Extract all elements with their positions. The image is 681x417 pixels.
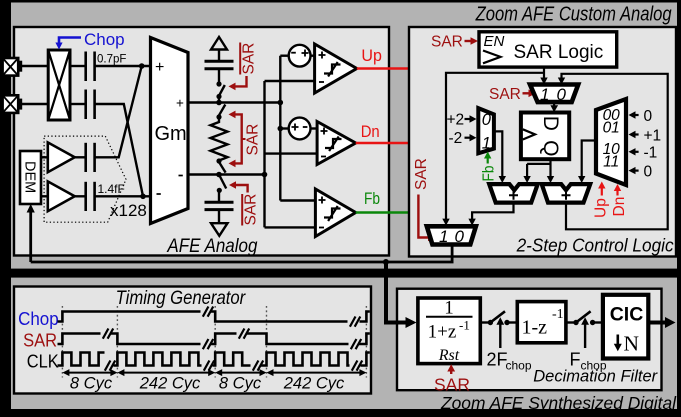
svg-text:Fb: Fb: [364, 189, 380, 208]
svg-text:SAR: SAR: [23, 330, 57, 351]
section divider bus bar: [0, 269, 681, 278]
svg-text:Chop: Chop: [18, 308, 59, 329]
label +2 with arrow: [447, 112, 477, 129]
svg-text:x128: x128: [110, 201, 147, 220]
svg-text:chop: chop: [506, 359, 532, 373]
CLK waveform break marks: [105, 361, 362, 371]
svg-text:242 Cyc: 242 Cyc: [139, 375, 201, 393]
arrow into DEM from feedback wire: [27, 204, 35, 262]
label SAR-bar (top) with arrow: [229, 43, 258, 91]
summing node SC2: [280, 118, 310, 140]
switch S4 (below -rail, SARb): [217, 177, 227, 202]
svg-text:8 Cyc: 8 Cyc: [219, 375, 262, 393]
wire C3 diagonal up to Gm +in node: [95, 66, 142, 157]
svg-text:11: 11: [603, 154, 619, 171]
clock arrow 2Fchop: [487, 317, 532, 372]
svg-text:Fb: Fb: [481, 166, 498, 182]
mux M2 (0 1 vertical): [478, 108, 494, 153]
dotted gridline t3: [214, 306, 216, 378]
svg-text:1: 1: [444, 298, 454, 319]
Timing Generator box: [14, 287, 371, 394]
wire control logic to decimation filter (thick): [386, 262, 417, 328]
chopper switch box: [48, 50, 70, 120]
pad X2 (input pad): [3, 95, 23, 113]
capacitor CB (bottom DAC cap): [205, 202, 234, 209]
output arrow of CIC: [649, 317, 675, 328]
svg-text:SAR: SAR: [243, 194, 260, 226]
wire CB to ground: [218, 210, 220, 224]
mux M1 (1 0): [530, 85, 578, 104]
adder A1: [489, 184, 538, 203]
svg-text:chop: chop: [581, 359, 607, 373]
svg-text:Timing Generator: Timing Generator: [116, 287, 247, 309]
summing node SC1: [280, 45, 310, 67]
comparator input bus N (from -rail): [263, 81, 265, 227]
dotted gridline t2: [116, 306, 118, 378]
interval arrow 8 Cyc (2): [215, 369, 266, 392]
DEM capacitor C4 (plates): [86, 182, 95, 211]
op-amp Gm: [151, 38, 189, 224]
svg-text:CIC: CIC: [610, 304, 644, 326]
svg-text:-1: -1: [459, 318, 470, 333]
svg-text:Zoom AFE Custom Analog: Zoom AFE Custom Analog: [475, 4, 672, 26]
label Dn (red) mux M4 select: [611, 184, 628, 217]
comparator U2 (Dn): [265, 122, 356, 165]
Chop waveform break marks: [203, 307, 360, 327]
mux M4 input -1: [629, 145, 658, 162]
supply symbol (up triangle): [211, 37, 227, 50]
wire pad2 to chopper: [18, 103, 48, 105]
D flip-flop U11: [521, 113, 569, 160]
mux M4 input +1: [629, 127, 662, 144]
switch S3 (resistor to -rail): [216, 158, 225, 172]
Chop waveform: [58, 312, 370, 322]
svg-text:Chop: Chop: [84, 30, 125, 49]
pad X1 (input pad): [3, 58, 23, 76]
wire mux M1 to DFF: [550, 102, 558, 112]
svg-text:SAR: SAR: [431, 34, 463, 51]
svg-text:-1: -1: [552, 307, 564, 322]
svg-text:Rst: Rst: [438, 347, 460, 364]
CIC decimator block: [603, 295, 648, 359]
svg-text:8 Cyc: 8 Cyc: [70, 375, 113, 393]
Chop label (blue) with arrow: [55, 30, 124, 50]
dotted gridline t5: [365, 306, 367, 378]
svg-text:AFE Analog: AFE Analog: [167, 236, 258, 257]
svg-text:SAR: SAR: [245, 124, 262, 156]
adder A2: [542, 184, 591, 203]
svg-text:Up: Up: [361, 46, 382, 65]
svg-text:1-z: 1-z: [522, 317, 548, 339]
comparator U1 (Up): [265, 44, 357, 93]
svg-text:-2: -2: [449, 130, 463, 147]
capacitor C2 (plates): [86, 90, 95, 120]
svg-text:SAR: SAR: [489, 86, 521, 103]
wire adder A1 out to mux M3 input 0: [468, 203, 513, 226]
CLK waveform: [58, 353, 370, 366]
resistor R (DAC ladder): [211, 117, 228, 161]
svg-text:0: 0: [644, 108, 653, 125]
label Fb (green) mux M2 select: [481, 152, 498, 182]
svg-text:+2: +2: [447, 112, 465, 129]
svg-text:1.4fF: 1.4fF: [98, 182, 125, 196]
svg-text:0: 0: [482, 111, 492, 129]
dotted gridline t4: [266, 306, 268, 378]
SAR waveform: [58, 334, 370, 345]
svg-text:+1: +1: [644, 127, 662, 144]
svg-text:D: D: [539, 116, 562, 131]
svg-text:242 Cyc: 242 Cyc: [283, 375, 345, 393]
svg-text:Gm: Gm: [155, 123, 187, 145]
svg-text:1: 1: [439, 227, 448, 246]
svg-text:Dn: Dn: [361, 122, 380, 141]
switch SW2 (Fchop): [566, 311, 604, 325]
capacitor CT (top DAC cap): [205, 61, 234, 68]
comparator U3 (Fb): [265, 189, 356, 237]
label SAR (red) reset arrow: [434, 364, 470, 394]
mux M4 input 0 (top): [629, 108, 653, 125]
wire C4 to Gm -in with junction node: [95, 194, 151, 200]
wire DFF Q to adders: [523, 159, 554, 183]
buffer B1: [41, 142, 75, 172]
interval arrow 242 Cyc (2): [267, 369, 367, 392]
switch S1 (SARb): [216, 81, 224, 102]
mux M4 (00 01 10 11): [596, 99, 626, 185]
svg-text:2-Step Control Logic: 2-Step Control Logic: [516, 236, 674, 256]
wire B2 to DEM capacitor C4: [75, 195, 85, 197]
svg-text:N: N: [624, 332, 640, 356]
mux M3 (1 0 bottom): [427, 226, 476, 246]
label SAR (middle) with double arrow bracket: [229, 111, 262, 168]
2-Step Control Logic box: [409, 27, 676, 257]
dotted x128 array boundary: [44, 136, 126, 222]
svg-text:SAR: SAR: [413, 158, 430, 190]
svg-text:0.7pF: 0.7pF: [97, 54, 126, 66]
svg-text:+: +: [176, 96, 184, 111]
label Up (red) mux M4 select: [593, 182, 610, 219]
svg-text:01: 01: [603, 120, 620, 137]
switch SW1 (2Fchop): [480, 311, 517, 325]
interval arrow 8 Cyc (1): [62, 369, 117, 392]
wire B1 to DEM capacitor C3: [75, 156, 85, 158]
svg-text:0: 0: [455, 227, 465, 246]
accumulator feedback wire into mux M1 input 0: [558, 74, 668, 230]
svg-text:1: 1: [482, 135, 491, 153]
label SAR-bar (bottom) with arrow: [229, 181, 260, 225]
wire pad1 to chopper: [18, 65, 48, 67]
svg-text:0: 0: [644, 163, 653, 180]
wire mux M4 out to adder A2: [578, 141, 596, 184]
wire chopper to capacitor C2: [70, 103, 85, 105]
wire Dn (red) into control box: [356, 122, 416, 147]
DEM block: [20, 151, 41, 204]
clock arrow Fchop: [570, 317, 607, 372]
svg-text:SAR Logic: SAR Logic: [514, 42, 604, 63]
svg-text:F: F: [570, 350, 581, 370]
svg-text:Zoom AFE Synthesized Digital: Zoom AFE Synthesized Digital: [440, 393, 677, 413]
svg-text:2F: 2F: [487, 350, 508, 370]
wire SAR Logic out to mux M1 input 1: [540, 67, 547, 84]
mux M4 input 0 (bottom): [629, 163, 653, 180]
wire chopper to capacitor C1: [70, 65, 85, 67]
wire supply to cap CT: [218, 50, 220, 61]
wire Fb (green) into control box: [356, 189, 416, 216]
capacitor 0.7pF (plates): [86, 52, 95, 82]
Decimation Filter box: [397, 289, 662, 391]
switch S2 (rail to resistor): [216, 105, 225, 120]
wire C1 to Gm +in with junction node: [95, 63, 151, 69]
svg-text:Up: Up: [593, 198, 610, 218]
label -2 with arrow: [449, 130, 477, 147]
buffer B2: [41, 181, 75, 211]
DEM capacitor C3 (plates): [86, 143, 95, 172]
differentiator block 1-z^-1: [517, 302, 566, 343]
comparator input bus P (from +rail): [278, 56, 284, 201]
svg-text:1: 1: [540, 85, 549, 104]
wire CT to switch S1: [218, 69, 220, 84]
label SAR (EN input) with arrow: [431, 34, 478, 51]
wire mux M2 to adder A1: [494, 131, 506, 183]
label SAR (mux M1 select) with arrow: [489, 86, 536, 103]
-output rail of Gm: [188, 172, 267, 178]
svg-text:DEM: DEM: [22, 161, 38, 193]
integrator block 1/(1+z^-1): [418, 298, 480, 365]
svg-text:-1: -1: [644, 145, 658, 162]
svg-text:Q: Q: [539, 140, 562, 156]
ground (down triangle): [211, 223, 228, 236]
wire C2 diagonal to Gm -in node: [95, 104, 143, 196]
label SAR (mux M3 select) with arrow: [413, 158, 436, 241]
AFE Analog box: [14, 27, 389, 257]
svg-text:+: +: [155, 59, 164, 76]
svg-text:SAR: SAR: [241, 43, 258, 75]
wire mux M3 output to DEM and digital: [31, 245, 452, 266]
svg-text:SAR: SAR: [434, 375, 470, 395]
SAR Logic block U10: [479, 32, 617, 67]
svg-text:1+z: 1+z: [428, 322, 457, 343]
svg-text:Dn: Dn: [611, 197, 628, 217]
SAR waveform break marks: [103, 329, 361, 350]
dotted gridline t1: [61, 306, 63, 378]
svg-text:0: 0: [557, 85, 567, 104]
wire SAR logic out branch to mux M3 input 1: [442, 73, 544, 226]
svg-text:CLK: CLK: [27, 350, 60, 371]
+output rail of Gm: [188, 100, 283, 106]
svg-text:EN: EN: [484, 33, 505, 50]
wire Up (red) into control box: [357, 46, 416, 73]
interval arrow 242 Cyc (1): [117, 369, 215, 392]
